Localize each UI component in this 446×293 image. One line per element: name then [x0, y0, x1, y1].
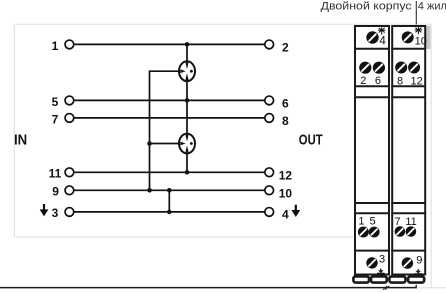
annotation leader line — [415, 1, 417, 25]
svg-text:OUT: OUT — [299, 133, 323, 149]
ground symbol left of pin 3 — [40, 204, 49, 216]
svg-text:5: 5 — [52, 95, 59, 109]
terminal circle 5 — [65, 96, 74, 105]
junction node F2 stub — [147, 141, 152, 146]
terminal circle 1 — [65, 40, 74, 49]
earth marking left module — [377, 269, 385, 274]
screw terminal 1 — [358, 227, 369, 238]
terminal circle 10 — [265, 186, 274, 195]
terminal circle 11 — [65, 168, 74, 177]
junction node row 3 — [167, 210, 172, 215]
frame border light gray top — [14, 23, 431, 25]
svg-text:9: 9 — [52, 185, 59, 199]
module housing left body — [355, 26, 389, 275]
svg-text:10: 10 — [415, 36, 427, 48]
svg-text:11: 11 — [405, 216, 416, 228]
star marking right module — [415, 27, 422, 34]
svg-text:11: 11 — [49, 167, 62, 181]
module right dividers — [391, 49, 426, 251]
screw terminal 12 — [408, 62, 420, 74]
star marking left module — [378, 27, 385, 34]
svg-text:3: 3 — [379, 254, 385, 266]
wire row 9 to row 3 — [168, 190, 170, 212]
junction node row 9 right — [167, 188, 172, 193]
svg-text:7: 7 — [52, 112, 59, 126]
svg-text:4: 4 — [282, 208, 289, 222]
svg-text:9: 9 — [416, 254, 422, 266]
wire row 1-2 — [74, 43, 265, 45]
terminal circle 7 — [65, 114, 74, 123]
screw terminal 2 — [359, 62, 371, 74]
screw terminal 3 — [366, 257, 377, 268]
earth marking right module — [414, 269, 422, 274]
DIN rail foot 2 — [371, 276, 387, 282]
svg-text:7: 7 — [394, 216, 400, 228]
screw terminal 4 — [366, 31, 378, 43]
wire row 5 to F2 top — [186, 100, 188, 133]
screw terminal 8 — [395, 62, 407, 74]
junction node row 11 — [185, 170, 190, 175]
svg-text:5: 5 — [369, 216, 375, 228]
wire F1 left stub — [150, 70, 180, 72]
wire row 9-10 — [74, 189, 265, 191]
DIN rail foot 1 — [353, 276, 369, 282]
junction node row 5 — [185, 98, 190, 103]
screw terminal 5 — [369, 227, 380, 238]
wire vertical node 1 to F1 top — [186, 44, 188, 62]
svg-text:4: 4 — [379, 35, 386, 47]
module housing right body — [392, 26, 425, 275]
bottom border end tick — [415, 285, 417, 289]
svg-text:2: 2 — [282, 41, 289, 55]
gas discharge tube F2 — [179, 134, 195, 154]
svg-text:12: 12 — [410, 76, 422, 88]
module shadow right — [426, 26, 430, 49]
frame border light gray inner bottom — [14, 236, 355, 238]
screw terminal 6 — [373, 62, 385, 74]
terminal circle 4 — [265, 208, 274, 217]
terminal circle 6 — [265, 96, 274, 105]
wire vertical stub to row 9 — [149, 70, 151, 190]
DIN rail foot 3 — [389, 276, 405, 282]
wire F2 left stub — [150, 143, 180, 145]
svg-text:1: 1 — [358, 216, 364, 228]
screw terminal 9 — [402, 257, 413, 268]
svg-text:1: 1 — [52, 39, 59, 53]
svg-text:4 жил: 4 жил — [418, 1, 446, 13]
wire row 3-4 — [74, 211, 265, 213]
junction node row 1 — [185, 42, 190, 47]
wire row 11-12 — [74, 171, 265, 173]
screw terminal 7 — [395, 226, 406, 237]
svg-text:8: 8 — [282, 114, 289, 128]
svg-text:8: 8 — [397, 76, 403, 88]
gas discharge tube F1 — [179, 61, 195, 81]
svg-text:6: 6 — [375, 75, 381, 87]
ground symbol right of pin 4 — [291, 205, 300, 217]
bottom break mark — [383, 286, 389, 290]
bottom border line — [0, 287, 417, 289]
frame border light gray bottom right segment — [417, 287, 446, 289]
wire row 5-6 — [74, 99, 265, 101]
terminal circle 3 — [65, 208, 74, 217]
svg-text:IN: IN — [14, 132, 27, 148]
svg-text:Двойной корпус: Двойной корпус — [321, 1, 413, 13]
terminal circle 2 — [265, 40, 274, 49]
wire row 7-8 — [74, 117, 265, 119]
svg-text:2: 2 — [360, 75, 366, 87]
screw terminal 11 — [406, 226, 417, 237]
svg-text:3: 3 — [52, 206, 59, 220]
frame border light gray left — [13, 24, 15, 237]
frame border light gray right — [430, 24, 432, 288]
terminal circle 9 — [65, 186, 74, 195]
terminal circle 8 — [265, 114, 274, 123]
terminal circle 12 — [265, 168, 274, 177]
svg-text:12: 12 — [279, 168, 293, 182]
DIN rail foot 4 — [408, 276, 424, 282]
wire F2 bottom to row 11 — [186, 154, 188, 173]
screw terminal 10 — [402, 31, 414, 43]
svg-text:6: 6 — [282, 97, 289, 111]
module left dividers — [354, 49, 390, 251]
junction node row 9 left — [147, 188, 152, 193]
svg-text:10: 10 — [279, 186, 293, 200]
wire F1 bottom to row 5 — [186, 81, 188, 101]
